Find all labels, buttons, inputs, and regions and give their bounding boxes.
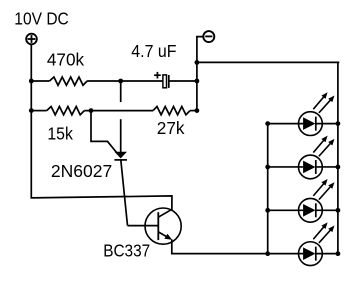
- svg-text:2N6027: 2N6027: [51, 161, 112, 181]
- svg-text:4.7 uF: 4.7 uF: [131, 41, 176, 61]
- svg-text:15k: 15k: [47, 123, 73, 143]
- svg-text:470k: 470k: [47, 50, 85, 70]
- svg-text:10V DC: 10V DC: [14, 9, 69, 29]
- svg-text:BC337: BC337: [103, 241, 150, 261]
- svg-text:27k: 27k: [157, 118, 185, 138]
